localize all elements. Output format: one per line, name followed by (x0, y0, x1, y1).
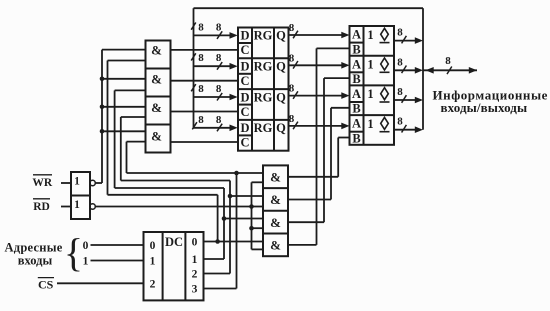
wire: Q output of register 3 to A input of mux 3 (8-bit) (289, 83, 350, 99)
wire: RD branch to read gate 2 (252, 206, 264, 208)
svg-text:входы: входы (18, 254, 53, 268)
inverter U1 (WR) (71, 172, 95, 196)
wire: tri-state output of mux 4 to I/O bus (8-bit) (394, 116, 423, 133)
label RD (active low) (33, 199, 50, 213)
junction: DC output 0 riser tap (215, 239, 220, 244)
svg-text:&: & (270, 215, 281, 230)
svg-text:2: 2 (150, 279, 156, 291)
svg-text:B: B (352, 72, 360, 86)
svg-text:8: 8 (445, 55, 451, 67)
svg-text:Q: Q (276, 90, 286, 104)
wire: dec1 crossbar to write riser (115, 187, 224, 189)
svg-text:1: 1 (150, 256, 156, 268)
wire: dec2 write riser (120, 117, 122, 181)
svg-text:B: B (352, 131, 360, 145)
wire: write gate 2 output to C input of register 2 (171, 80, 239, 82)
junction: dec2 riser tap to read gate 2 (228, 194, 233, 199)
node: address input 1 (83, 256, 144, 268)
svg-text:C: C (240, 43, 249, 57)
svg-text:D: D (240, 90, 249, 104)
wire: RD branch to read gate 4 (252, 248, 264, 250)
wire: dec2 crossbar to write riser (121, 180, 230, 182)
decoder DD1 (DC) (144, 232, 204, 300)
svg-text:1: 1 (74, 176, 80, 188)
svg-text:C: C (240, 74, 249, 88)
svg-text:входы/выходы: входы/выходы (441, 100, 528, 115)
svg-text:1: 1 (367, 117, 373, 131)
wire: dec3 riser (236, 173, 238, 289)
svg-text:8: 8 (198, 83, 204, 95)
svg-text:8: 8 (289, 113, 295, 125)
svg-text:WR: WR (32, 177, 53, 189)
wire: dec2 stub into write gate 3 (121, 116, 146, 118)
svg-text:&: & (151, 43, 162, 58)
wire: data bus line into D input of register 3 (8-bit) (191, 83, 238, 101)
svg-text:D: D (240, 60, 249, 74)
junction: RD line at read gate 3 (249, 226, 254, 231)
svg-text:C: C (240, 105, 249, 119)
svg-text:0: 0 (150, 240, 156, 252)
mux 4 labels A B 1 and tri-state diamond (352, 117, 390, 146)
junction: WR riser to gate 3 (100, 105, 105, 110)
wire: dec0 riser (217, 195, 219, 242)
svg-text:8: 8 (198, 52, 204, 64)
wire: WR vertical riser (101, 50, 103, 183)
node: address input 0 (83, 240, 144, 252)
svg-text:8: 8 (397, 27, 403, 39)
label: information inputs/outputs (433, 87, 548, 115)
register 2 pin labels D RG Q C (240, 60, 286, 89)
svg-text:1: 1 (74, 199, 80, 211)
svg-text:0: 0 (192, 237, 198, 249)
wire: read gate 1 output to B input of mux 4 (288, 138, 350, 177)
svg-text:1: 1 (83, 256, 89, 268)
junction: WR riser to gate 2 (100, 77, 105, 82)
wire: dec1 riser (223, 188, 225, 259)
svg-text:D: D (240, 29, 249, 43)
svg-text:Адресные: Адресные (4, 241, 62, 255)
wire: read gate 3 output to B input of mux 2 (288, 78, 350, 222)
wire: WR branch to write gate 4 (102, 130, 146, 132)
svg-text:1: 1 (367, 87, 373, 101)
wire: write gate 4 output to C input of register 4 (171, 141, 239, 143)
svg-text:B: B (352, 42, 360, 56)
wire: DC output 3 line (204, 288, 237, 290)
register 3 pin labels D RG Q C (240, 90, 286, 119)
svg-text:2: 2 (192, 269, 198, 281)
svg-text:8: 8 (289, 52, 295, 64)
svg-text:B: B (352, 102, 360, 116)
junction: dec1 riser tap to read gate 3 (222, 216, 227, 221)
svg-text:Q: Q (276, 29, 286, 43)
svg-text:Q: Q (276, 121, 286, 135)
svg-text:&: & (151, 72, 162, 87)
wire: left vertical data feed (193, 8, 195, 128)
svg-text:&: & (151, 100, 162, 115)
wire: read gate 4 output to B input of mux 1 (288, 48, 350, 245)
svg-text:{: { (64, 230, 83, 275)
wire: WR branch to write gate 3 (102, 106, 146, 108)
svg-text:&: & (151, 129, 162, 144)
output multiplexer column (350, 26, 395, 145)
inverter U2 (RD) (71, 196, 95, 220)
svg-text:RG: RG (254, 29, 273, 43)
wire: dec2 stub into read gate 2 (230, 195, 263, 197)
wire: Q output of register 4 to A input of mux 4 (8-bit) (289, 113, 350, 129)
svg-text:1: 1 (367, 28, 373, 42)
junction: WR riser to gate 4 (100, 129, 105, 134)
svg-text:8: 8 (397, 86, 403, 98)
wire: dec3 crossbar and read gate 1 feed (127, 172, 264, 174)
svg-text:&: & (270, 192, 281, 207)
junction: dec3 riser meets crossbar / read gate 1 feed (234, 171, 239, 176)
wire: dec2 riser (229, 181, 231, 274)
mux 3 labels A B 1 and tri-state diamond (352, 87, 390, 116)
svg-text:8: 8 (397, 116, 403, 128)
wire: WR inverter output to riser (95, 182, 102, 184)
svg-text:Q: Q (276, 60, 286, 74)
mux 2 labels A B 1 and tri-state diamond (352, 57, 390, 86)
read AND gate column (263, 165, 288, 256)
svg-text:0: 0 (83, 240, 89, 252)
wire: top bus rail (194, 7, 424, 9)
node RD: input stub (61, 206, 71, 208)
wire: tri-state output of mux 3 to I/O bus (8-bit) (394, 86, 423, 103)
register column RG1-RG4 (238, 28, 289, 151)
wire: RD branch to read gate 3 (252, 227, 264, 229)
wire: dec0 stub into write gate 1 (108, 60, 146, 62)
wire: dec1 stub into write gate 2 (115, 89, 146, 91)
wire: dec3 write riser (126, 142, 128, 173)
label CS (active low) and wire to DC (38, 277, 144, 291)
wire: bidirectional information bus stub (8-bit) (423, 55, 477, 74)
svg-text:3: 3 (192, 284, 198, 296)
svg-text:8: 8 (216, 83, 222, 95)
wire: data bus line into D input of register 4 (8-bit) (192, 114, 237, 132)
wire: Q output of register 1 to A input of mux 1 (8-bit) (289, 22, 350, 38)
wire: data bus line into D input of register 1 (8-bit) (191, 21, 238, 39)
wire: Q output of register 2 to A input of mux 2 (8-bit) (289, 52, 350, 68)
wire: dec1 write riser (114, 90, 116, 188)
wire: read gate 2 output to B input of mux 3 (288, 108, 350, 200)
svg-text:RD: RD (33, 201, 50, 213)
wire: dec3 stub into write gate 4 (127, 141, 146, 143)
svg-text:8: 8 (289, 22, 295, 34)
node WR: input stub (61, 182, 71, 184)
wire: RD branch to read gate 1 (252, 181, 264, 183)
wire: tri-state output of mux 2 to I/O bus (8-bit) (394, 56, 423, 73)
wire: dec1 stub into read gate 3 (224, 218, 263, 220)
wire: data bus line into D input of register 2 (8-bit) (191, 52, 238, 69)
wire: tri-state output of mux 1 to I/O bus (8-bit) (394, 27, 423, 44)
svg-text:1: 1 (367, 58, 373, 72)
svg-text:C: C (240, 135, 249, 149)
svg-text:A: A (352, 87, 361, 101)
svg-text:8: 8 (198, 114, 204, 126)
svg-text:8: 8 (397, 56, 403, 68)
svg-text:8: 8 (216, 52, 222, 64)
svg-text:A: A (352, 117, 361, 131)
wire: RD vertical distribution (251, 182, 253, 249)
label: address inputs text (4, 241, 62, 268)
svg-text:8: 8 (216, 114, 222, 126)
junction: RD line at read gate 2 (249, 204, 254, 209)
wire: write gate 1 output to C input of register 1 (171, 49, 239, 51)
wire: WR branch to write gate 2 (102, 78, 146, 80)
svg-text:A: A (352, 28, 361, 42)
wire: DC output 0 line to read gate 4 input (204, 241, 264, 243)
svg-text:8: 8 (198, 21, 204, 33)
svg-text:CS: CS (38, 277, 54, 291)
svg-text:RG: RG (254, 121, 273, 135)
wire: dec0 write riser (107, 61, 109, 195)
wire: right vertical I/O bus (422, 8, 424, 130)
register 4 pin labels D RG Q C (240, 121, 286, 149)
wire: WR branch to write gate 1 (102, 49, 146, 51)
svg-text:RG: RG (254, 90, 273, 104)
wire: DC output 2 line (204, 273, 231, 275)
wire: write gate 3 output to C input of register 3 (171, 111, 239, 113)
register 1 pin labels D RG Q C (240, 29, 286, 58)
svg-text:1: 1 (192, 254, 198, 266)
svg-text:&: & (270, 169, 281, 184)
wire: RD inverter output line to read gates (95, 206, 251, 208)
wire: dec0 crossbar to write riser (108, 194, 218, 196)
write AND gate column (146, 41, 171, 153)
svg-text:8: 8 (289, 83, 295, 95)
svg-text:&: & (270, 238, 281, 253)
svg-text:DC: DC (165, 235, 183, 249)
svg-text:A: A (352, 57, 361, 71)
mux 1 labels A B 1 and tri-state diamond (352, 28, 390, 57)
svg-text:D: D (240, 121, 249, 135)
svg-text:RG: RG (254, 60, 273, 74)
svg-text:8: 8 (216, 21, 222, 33)
wire: DC output 1 line (204, 258, 225, 260)
label WR (active low) (32, 175, 53, 189)
